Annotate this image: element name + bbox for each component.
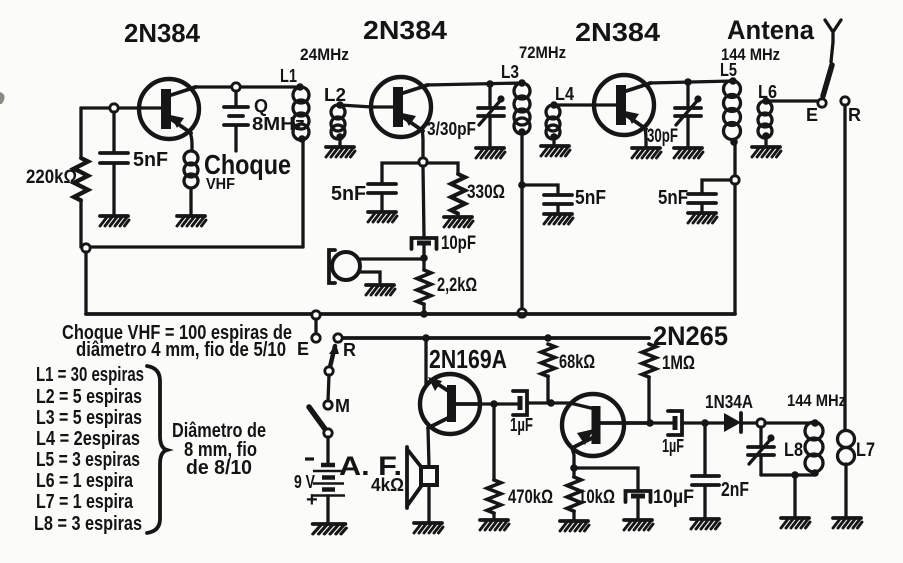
- stray scan mark left edge: [0, 92, 5, 104]
- inductor L1: [293, 87, 309, 103]
- wire diode to L8 node: [741, 421, 757, 424]
- node L3 top: [518, 79, 526, 87]
- node mic junction: [420, 254, 428, 262]
- wire trimmer top: [686, 82, 689, 107]
- svg-text:L3 = 5 espiras: L3 = 5 espiras: [36, 407, 142, 429]
- node detector output: [757, 419, 765, 427]
- capacitor 2nF: [692, 476, 719, 485]
- wire L6 to ground: [764, 137, 767, 145]
- wire Q4 base to 1uF: [480, 402, 517, 405]
- svg-text:de 8/10: de 8/10: [186, 457, 252, 479]
- transistor Q1 2N384: [139, 79, 199, 139]
- svg-text:5nF: 5nF: [575, 187, 606, 209]
- wire Q5 emitter down: [572, 448, 574, 468]
- svg-text:10kΩ: 10kΩ: [578, 487, 615, 508]
- resistor 470k: [487, 480, 501, 513]
- wire contact stub: [314, 319, 317, 334]
- node base/5nF junction: [110, 104, 118, 112]
- node trimmer junction: [486, 80, 494, 88]
- svg-text:+: +: [306, 489, 318, 511]
- wire L7 to ground: [844, 464, 847, 516]
- trimmer L8: [748, 434, 775, 464]
- svg-text:24MHz: 24MHz: [300, 45, 349, 64]
- speaker A.F. 4k: [407, 447, 422, 508]
- wire trimmer L8 top lead: [759, 427, 762, 445]
- ground under choke: [177, 216, 206, 226]
- wire switch to battery: [326, 437, 329, 462]
- node 68k junction: [547, 399, 555, 407]
- wire antenna to blade: [831, 42, 833, 62]
- wire junction down to 10pF: [423, 166, 424, 236]
- ground under L4: [541, 146, 570, 156]
- wire L4 to ground: [552, 138, 555, 144]
- resistor 68k: [541, 344, 555, 376]
- svg-text:220kΩ: 220kΩ: [26, 167, 77, 188]
- svg-text:2N384: 2N384: [575, 17, 661, 47]
- node pivot E: [818, 99, 826, 107]
- wire drop to ground: [793, 475, 796, 516]
- svg-text:2N384: 2N384: [124, 18, 201, 48]
- wire trimmer bottom: [686, 117, 689, 146]
- svg-text:R: R: [343, 340, 356, 360]
- ground under Q3 emitter: [632, 148, 661, 158]
- svg-text:L5 = 3 espiras: L5 = 3 espiras: [36, 449, 140, 471]
- capacitor 10uF: [626, 491, 651, 502]
- svg-text:5nF: 5nF: [133, 149, 168, 171]
- wire Q3 collector to L5: [649, 81, 733, 83]
- wire bottom of stage1: [81, 245, 303, 248]
- svg-text:L8 = 3 espiras: L8 = 3 espiras: [34, 513, 142, 535]
- inductor L3: [514, 83, 530, 99]
- wire L2 to Q2 base: [340, 105, 394, 107]
- node R terminal: [841, 97, 849, 105]
- node L3/5nF junction: [518, 181, 526, 189]
- node ground drop: [791, 471, 799, 479]
- node Q2 emitter junction: [419, 158, 427, 166]
- svg-text:2N169A: 2N169A: [429, 344, 507, 374]
- wire 10pF to mic node: [422, 246, 425, 258]
- wire to 5nF stage3: [702, 180, 731, 193]
- svg-text:2,2kΩ: 2,2kΩ: [437, 275, 477, 296]
- wire mid to M: [328, 375, 329, 401]
- resistor 10k: [572, 468, 575, 477]
- ground under battery: [313, 524, 346, 534]
- wire 2.2k to bus: [422, 304, 425, 314]
- svg-text:diâmetro 4 mm, fio de 5/10: diâmetro 4 mm, fio de 5/10: [76, 339, 286, 361]
- transistor Q3 2N384: [594, 75, 654, 135]
- svg-text:1N34A: 1N34A: [705, 392, 753, 412]
- wire left rail lower: [79, 200, 82, 247]
- ground under L6: [752, 147, 781, 157]
- wire 2nF to ground: [703, 486, 706, 517]
- ground under L8: [781, 518, 810, 528]
- ground under trimmer: [476, 148, 505, 158]
- wire bus to Q4: [424, 338, 427, 386]
- wire 10k to ground: [572, 511, 575, 519]
- wire Q1 emitter to choke: [190, 132, 192, 151]
- wire upper bus: [86, 312, 735, 316]
- node L1 top: [296, 83, 304, 91]
- svg-text:3/30pF: 3/30pF: [427, 119, 476, 139]
- ground under trimmer 30pF: [674, 148, 703, 158]
- node trimmer 30pF junction: [684, 78, 692, 86]
- svg-text:10pF: 10pF: [441, 233, 476, 254]
- svg-text:470kΩ: 470kΩ: [508, 487, 553, 508]
- wire crystal top lead: [234, 91, 237, 105]
- wire L2 to ground: [338, 138, 341, 145]
- ground under L2: [326, 147, 355, 157]
- svg-text:10µF: 10µF: [653, 487, 694, 508]
- inductor L2: [331, 105, 345, 119]
- battery 9V: [321, 463, 335, 468]
- node Q4 base junction: [490, 400, 498, 408]
- wire Q1 base: [81, 106, 162, 109]
- wire 2nF drop: [703, 423, 706, 475]
- wire junction left: [382, 163, 419, 183]
- node 2nF junction: [701, 419, 709, 427]
- wire crystal bottom lead: [234, 127, 237, 151]
- node Q5 collector junction: [646, 419, 654, 427]
- wire node to L8: [765, 421, 815, 424]
- wire junction right: [427, 163, 458, 174]
- wire trimmer top lead: [488, 84, 491, 107]
- wire L3 down: [520, 132, 523, 311]
- svg-text:2nF: 2nF: [721, 479, 749, 501]
- wire L5 junction down to bus: [733, 184, 736, 314]
- node E contact: [312, 334, 320, 342]
- inductor L6: [758, 101, 772, 115]
- svg-text:M: M: [335, 396, 350, 416]
- svg-text:30pF: 30pF: [647, 126, 678, 147]
- node L8 top: [811, 419, 819, 427]
- svg-text:5nF: 5nF: [658, 187, 688, 209]
- svg-text:Antena: Antena: [727, 15, 815, 45]
- svg-text:5nF: 5nF: [331, 183, 366, 205]
- wire collector to 1uF: [650, 421, 672, 424]
- wire trimmer L8 bottom lead: [759, 456, 762, 475]
- ground under 5nF stage2: [368, 212, 397, 222]
- wire 5nF to ground: [380, 194, 383, 210]
- label minus: [305, 457, 314, 460]
- svg-text:L5: L5: [720, 60, 737, 80]
- svg-text:E: E: [806, 105, 818, 125]
- svg-text:L4: L4: [555, 84, 574, 104]
- diode 1N34A: [724, 413, 741, 432]
- node bottom-left drop: [82, 244, 90, 252]
- ground under 2nF: [691, 519, 720, 529]
- node battery switch contact: [324, 429, 332, 437]
- resistor 330: [451, 174, 465, 214]
- capacitor 1uF first: [513, 391, 527, 415]
- wire mic lower terminal: [359, 272, 380, 282]
- capacitor 5nF mid: [544, 195, 572, 204]
- wire Q2 collector to L3: [426, 83, 522, 85]
- wire 5nF top lead: [112, 112, 115, 152]
- capacitor 1uF second: [668, 411, 682, 435]
- switch blade antenna: [823, 65, 832, 96]
- node bus drop Q4: [422, 334, 430, 342]
- ground under 5nF: [100, 216, 129, 226]
- svg-text:Q: Q: [254, 96, 268, 116]
- wire choke to ground: [189, 188, 192, 214]
- node Q5 emitter junction: [570, 464, 578, 472]
- trimmer 3/30pF: [478, 95, 505, 125]
- svg-text:1MΩ: 1MΩ: [662, 353, 695, 374]
- resistor 220k: [74, 158, 88, 200]
- capacitor 5nF stage1: [100, 153, 128, 163]
- inductor L7: [838, 431, 855, 448]
- transistor Q4 2N169A: [420, 374, 480, 434]
- wire 5nF bottom lead: [112, 163, 115, 214]
- node L1 bottom: [298, 135, 306, 143]
- transistor Q2 2N384: [371, 77, 431, 137]
- crystal Q 8MHz: [224, 107, 248, 125]
- inductor L4: [546, 105, 560, 119]
- node crystal junction: [232, 83, 240, 91]
- wire 1uF to diode: [682, 421, 724, 424]
- trimmer 30pF: [675, 95, 702, 125]
- antenna symbol: [825, 20, 841, 42]
- wire to 5nF mid: [522, 185, 558, 194]
- wire trimmer bottom lead: [488, 117, 491, 146]
- svg-text:4kΩ: 4kΩ: [371, 475, 404, 495]
- wire 470k drop: [492, 404, 495, 480]
- capacitor 5nF stage3: [688, 194, 716, 203]
- transistor Q5 2N265: [562, 394, 650, 456]
- wire 68k to base wire: [546, 376, 549, 403]
- node L4 bottom: [550, 133, 558, 141]
- svg-text:1µF: 1µF: [510, 415, 533, 435]
- wire mic to junction: [360, 257, 424, 260]
- wire left rail upper: [79, 108, 82, 158]
- node 2.2k bus junction: [420, 310, 428, 318]
- inductor L8: [805, 422, 823, 440]
- brace: [147, 366, 167, 533]
- svg-text:68kΩ: 68kΩ: [559, 352, 595, 373]
- svg-text:L1 = 30 espiras: L1 = 30 espiras: [36, 364, 144, 386]
- ground under 330: [444, 217, 473, 227]
- wire battery to ground: [326, 496, 329, 522]
- svg-text:L2 = 5 espiras: L2 = 5 espiras: [36, 386, 142, 408]
- node L5 bottom: [730, 138, 738, 146]
- wire Q3 emitter down: [645, 128, 646, 146]
- ground under 5nF mid: [544, 214, 573, 224]
- ground under 5nF stage3: [688, 213, 717, 223]
- svg-text:L4 = 2espiras: L4 = 2espiras: [36, 428, 140, 450]
- ground under mic: [366, 285, 395, 295]
- svg-text:VHF: VHF: [206, 176, 235, 193]
- node bus open circle: [518, 309, 526, 317]
- switch blade battery: [309, 407, 325, 429]
- svg-text:330Ω: 330Ω: [467, 182, 505, 203]
- svg-text:E: E: [297, 339, 309, 359]
- svg-text:R: R: [848, 105, 861, 125]
- ground under 470k: [480, 520, 509, 530]
- wire top collector to L1: [194, 85, 298, 88]
- svg-text:L7: L7: [856, 440, 875, 461]
- node R contact: [334, 334, 342, 342]
- wire R down right rail: [843, 105, 846, 430]
- wire 1M to collector: [647, 377, 650, 423]
- wire 5nF mid to ground: [556, 205, 559, 212]
- node L2 top: [336, 101, 344, 109]
- node bus contact: [312, 311, 320, 319]
- node L4 top: [550, 101, 558, 109]
- microphone: [332, 252, 360, 280]
- wire L4 to Q3 base: [554, 103, 617, 106]
- wire Q2 emitter down: [422, 130, 423, 158]
- node L5 top: [729, 77, 737, 85]
- wire L1 down to bottom: [301, 139, 304, 247]
- ground under 10k: [560, 521, 589, 531]
- wire speaker to ground: [427, 485, 430, 521]
- wire 330 to ground: [456, 214, 459, 215]
- svg-text:2N384: 2N384: [363, 15, 448, 45]
- ground under speaker: [414, 523, 443, 533]
- resistor 2.2k: [422, 258, 425, 270]
- wire 10uF to ground: [636, 499, 639, 518]
- node L5/5nF junction: [731, 176, 739, 184]
- svg-text:L6 = 1 espira: L6 = 1 espira: [36, 470, 134, 492]
- inductor L5: [724, 81, 741, 98]
- node L2 bottom: [336, 133, 344, 141]
- svg-text:1µF: 1µF: [662, 436, 684, 456]
- inductor choque VHF: [184, 151, 198, 165]
- wire 1uF to Q5 base: [527, 403, 595, 409]
- svg-text:144 MHz: 144 MHz: [787, 391, 846, 410]
- svg-text:L8: L8: [784, 440, 803, 461]
- node M contact: [324, 401, 332, 409]
- wire trimmer to L8 bottom: [761, 473, 815, 476]
- wire drop to bus: [84, 252, 87, 314]
- svg-text:L7 = 1 espira: L7 = 1 espira: [36, 491, 134, 513]
- svg-text:L3: L3: [501, 62, 519, 82]
- wire lower bus: [341, 336, 649, 340]
- wire 470k to ground: [492, 513, 495, 518]
- switch blade R-M: [330, 346, 335, 367]
- wire 5nF stage3 to ground: [700, 204, 703, 211]
- ground under L7: [833, 518, 862, 528]
- svg-text:L2: L2: [324, 85, 346, 105]
- node L3 bottom: [518, 128, 526, 136]
- wire L5 down: [733, 142, 736, 176]
- ground under 10uF: [624, 520, 653, 530]
- node mid contact: [325, 367, 333, 375]
- svg-text:L1: L1: [280, 66, 297, 86]
- node L6 top: [762, 97, 770, 105]
- node L8 bottom: [811, 469, 819, 477]
- node 68k top: [544, 334, 552, 342]
- wire Q4 collector to speaker: [428, 428, 429, 466]
- capacitor 10pF feedthrough: [412, 238, 437, 249]
- wire L6 to switch pivot: [766, 99, 817, 102]
- svg-text:2N265: 2N265: [653, 321, 728, 351]
- capacitor 5nF stage2: [368, 184, 396, 193]
- wire emitter to 10uF: [574, 468, 638, 489]
- node L6 bottom: [762, 132, 770, 140]
- resistor 1M: [642, 344, 656, 377]
- svg-text:72MHz: 72MHz: [519, 43, 566, 62]
